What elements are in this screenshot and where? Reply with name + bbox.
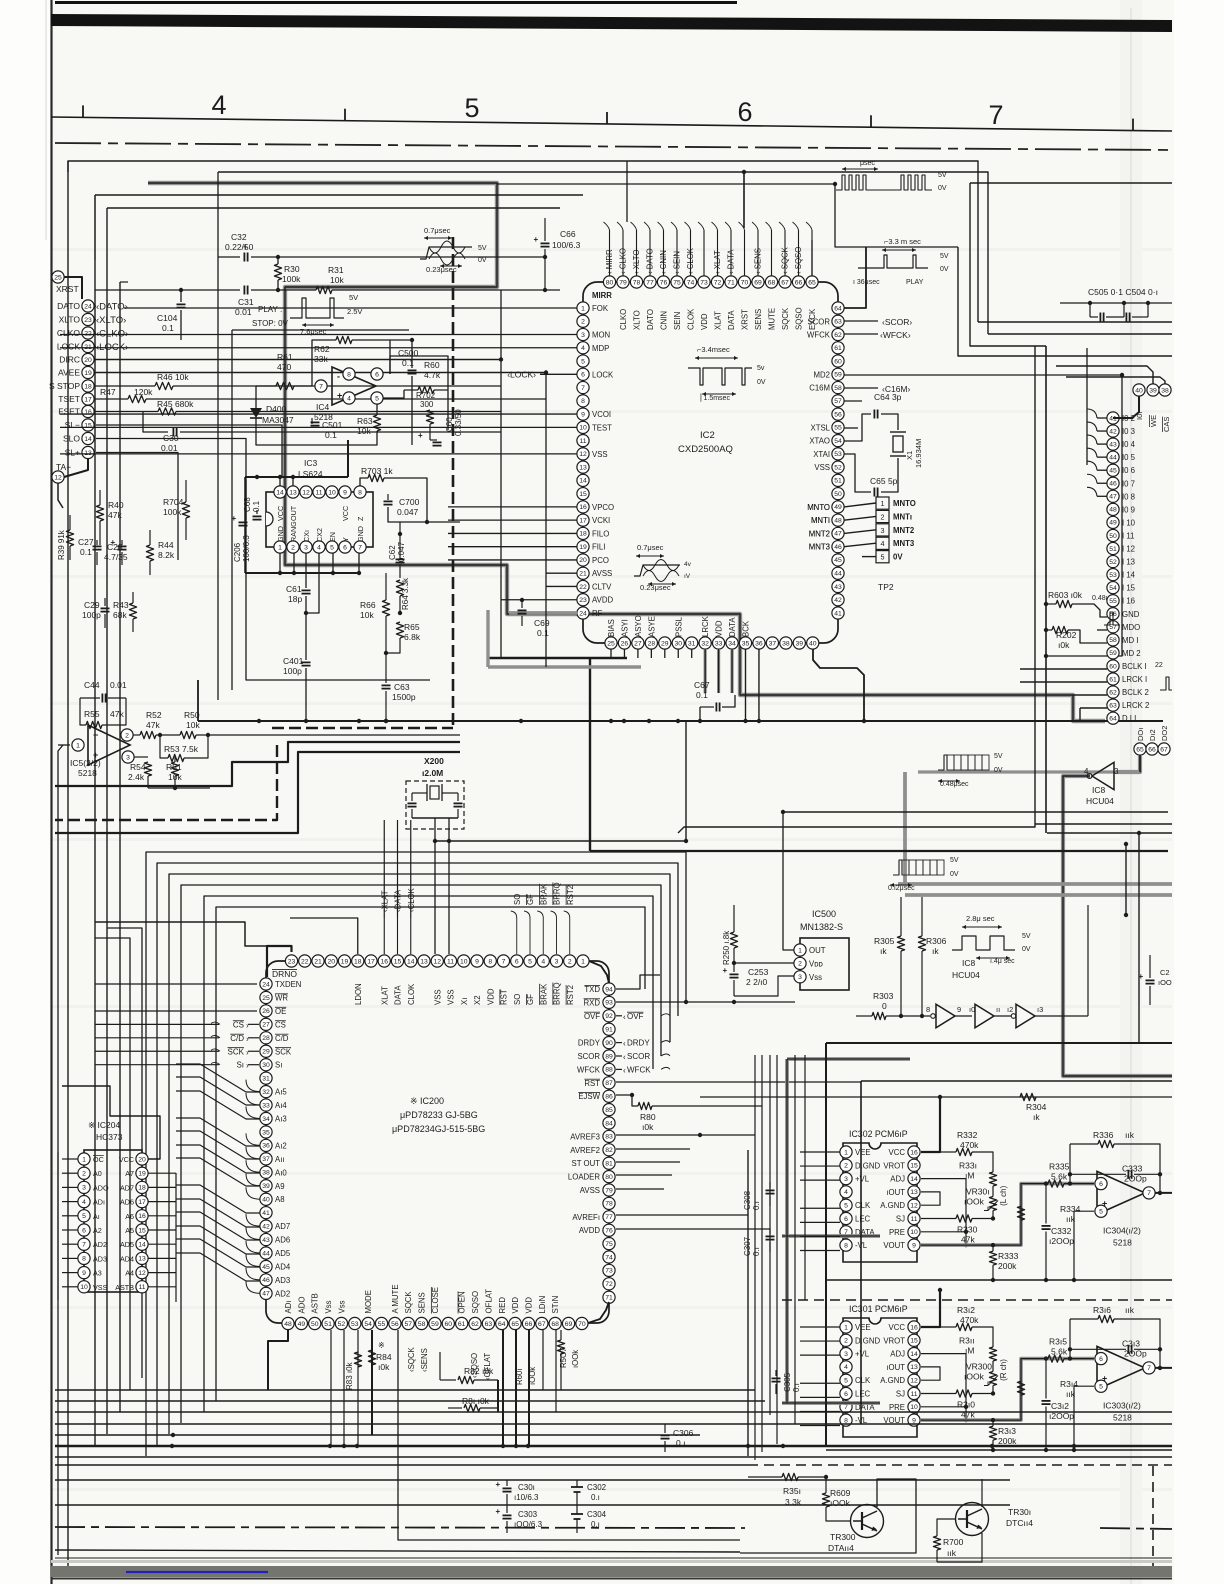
svg-text:SENS: SENS [754, 309, 763, 330]
TP2 pin 4 [876, 537, 889, 549]
IC200 pin 44 [260, 1247, 272, 1259]
svg-text:49: 49 [1109, 520, 1117, 527]
RAM pin 64 [1107, 712, 1119, 724]
svg-text:Aı0: Aı0 [275, 1168, 287, 1177]
IC301 pin 11 [908, 1387, 920, 1399]
svg-text:23: 23 [84, 317, 92, 324]
wire BCLK LRCK runs [1020, 668, 1107, 670]
svg-text:15: 15 [910, 1338, 918, 1345]
svg-text:47k: 47k [961, 1235, 975, 1245]
svg-text:TSET: TSET [58, 394, 80, 404]
IC302 pin 1 [840, 1146, 852, 1158]
IC2 pin 67 [779, 276, 791, 288]
bottom scan band [51, 1566, 1172, 1577]
svg-text:63: 63 [485, 1321, 493, 1328]
svg-text:MDO: MDO [1122, 623, 1140, 632]
RAM pin 62 [1107, 686, 1119, 698]
svg-text:37: 37 [769, 640, 777, 647]
svg-text:C305: C305 [783, 1372, 792, 1392]
svg-text:MN1382-S: MN1382-S [800, 922, 843, 932]
svg-text:R66: R66 [360, 600, 376, 610]
svg-text:5218: 5218 [1113, 1413, 1132, 1423]
IC204 pin 4 [78, 1196, 90, 1208]
svg-text:16: 16 [380, 958, 388, 965]
svg-text:71: 71 [727, 279, 735, 286]
svg-text:MA3047: MA3047 [262, 415, 294, 425]
svg-text:40: 40 [262, 1197, 270, 1204]
IC2 pin 41 [832, 607, 844, 619]
IC200 pin 24 [260, 978, 272, 990]
svg-text:46: 46 [834, 544, 842, 551]
svg-text:13: 13 [289, 489, 297, 496]
IC2 pin 37 [766, 637, 778, 649]
svg-text:CLTV: CLTV [592, 582, 612, 591]
svg-text:15: 15 [579, 491, 587, 498]
IC200 pin 70 [576, 1317, 588, 1329]
svg-text:41: 41 [834, 610, 842, 617]
svg-text:C401: C401 [283, 656, 304, 666]
IC302 pin 11 [908, 1212, 920, 1224]
IC2 pin 64 [832, 302, 844, 314]
svg-text:68: 68 [768, 279, 776, 286]
RAM pin 63 [1107, 699, 1119, 711]
svg-text:※ IC204: ※ IC204 [88, 1120, 120, 1130]
svg-text:27: 27 [262, 1022, 270, 1029]
IC2 pin 36 [753, 637, 765, 649]
svg-text:60: 60 [445, 1321, 453, 1328]
capacitor C30 [143, 412, 168, 433]
svg-text:36: 36 [262, 1143, 270, 1150]
svg-text:AD7: AD7 [120, 1183, 134, 1192]
svg-text:ADJ: ADJ [890, 1175, 905, 1184]
svg-text:+: + [534, 235, 539, 244]
svg-text:C44: C44 [84, 680, 100, 690]
svg-text:OE: OE [275, 1007, 286, 1016]
svg-text:0.1: 0.1 [162, 323, 174, 333]
svg-text:R3ı3: R3ı3 [998, 1426, 1016, 1436]
svg-text:4: 4 [317, 544, 321, 551]
svg-text:9: 9 [475, 958, 479, 965]
svg-text:XRST: XRST [741, 309, 750, 330]
svg-text:94: 94 [605, 986, 613, 993]
svg-text:C304: C304 [587, 1510, 607, 1519]
svg-text:CNIN: CNIN [660, 311, 669, 330]
dash-dot divider line top [55, 143, 1172, 150]
svg-text:58: 58 [1109, 637, 1117, 644]
IC2 pin 54 [832, 435, 844, 447]
grey highlight loop top [148, 183, 1105, 721]
svg-text:55: 55 [1109, 598, 1117, 605]
IC200 pin 10 [458, 955, 470, 967]
wire ADJ-PRE vertical [921, 1179, 966, 1246]
ruler tick [606, 112, 608, 124]
svg-text:39: 39 [1149, 387, 1157, 394]
IC2 pin 51 [832, 474, 844, 486]
svg-text:47k: 47k [108, 510, 122, 520]
svg-text:R47: R47 [100, 387, 116, 397]
svg-text:R65: R65 [404, 622, 420, 632]
wire AVREF stubs [616, 1134, 755, 1136]
svg-text:Vss: Vss [809, 973, 822, 982]
svg-text:66: 66 [525, 1321, 533, 1328]
svg-text:5: 5 [844, 1378, 848, 1385]
svg-text:82: 82 [605, 1147, 613, 1154]
wire main bus y721 [198, 720, 1163, 722]
svg-text:76: 76 [605, 1228, 613, 1235]
IC2 pin 18 [577, 527, 589, 539]
svg-text:ı0k: ı0k [642, 1122, 654, 1132]
IC200 pin 48 [282, 1317, 294, 1329]
svg-text:25: 25 [607, 640, 615, 647]
wire IC3 vcc bus [245, 476, 348, 478]
svg-text:LRCK 2: LRCK 2 [1122, 701, 1149, 710]
svg-text:66: 66 [1148, 746, 1156, 753]
svg-text:29: 29 [262, 1049, 270, 1056]
svg-text:R3ı6: R3ı6 [1093, 1305, 1111, 1315]
svg-text:SCOR: SCOR [577, 1052, 600, 1061]
svg-text:VEE: VEE [855, 1148, 871, 1157]
svg-text:0.7μsec: 0.7μsec [424, 226, 451, 235]
svg-text:CXD2500AQ: CXD2500AQ [678, 444, 733, 455]
IC2 pin 17 [577, 514, 589, 526]
svg-text:MON: MON [592, 331, 610, 340]
wire long horizontal y160 [68, 161, 978, 322]
op-amp IC303(ı/2) [1097, 1346, 1145, 1389]
svg-text:DTCıı4: DTCıı4 [1006, 1518, 1033, 1528]
svg-text:50: 50 [1109, 533, 1117, 540]
svg-text:MNTı: MNTı [893, 512, 912, 521]
svg-text:16.934M: 16.934M [914, 439, 923, 468]
svg-text:47: 47 [834, 531, 842, 538]
svg-text:SCOR: SCOR [627, 1052, 650, 1061]
TP2 pin 5 [876, 551, 889, 563]
IC301 pin 2 [840, 1334, 852, 1346]
svg-text:44: 44 [1109, 454, 1117, 461]
IC200 pin 60 [442, 1317, 454, 1329]
svg-text:54: 54 [1109, 585, 1117, 592]
svg-text:65: 65 [808, 279, 816, 286]
svg-text:C63: C63 [394, 682, 410, 692]
svg-text:0.01: 0.01 [161, 443, 178, 453]
svg-text:IC3: IC3 [304, 458, 318, 468]
svg-text:AD3: AD3 [93, 1254, 107, 1263]
IC500 pin 1 [794, 944, 806, 956]
svg-text:23: 23 [579, 597, 587, 604]
svg-text:0.1: 0.1 [537, 628, 549, 638]
svg-text:0V: 0V [938, 185, 947, 192]
wire bundle around IC200 [146, 852, 686, 1456]
svg-text:SJ: SJ [896, 1390, 905, 1399]
wire black under DAC greys [787, 1058, 910, 1060]
svg-text:0V: 0V [757, 379, 766, 386]
svg-text:38: 38 [262, 1170, 270, 1177]
svg-text:5V: 5V [940, 253, 949, 260]
IC3 pin 12 [300, 486, 312, 498]
svg-text:›: › [246, 1021, 249, 1030]
svg-text:AD3: AD3 [275, 1276, 290, 1285]
svg-text:8: 8 [82, 1256, 86, 1263]
wire long horizontal y171 [218, 172, 988, 334]
IC3 pin 3 [300, 541, 312, 553]
svg-text:2: 2 [125, 732, 129, 739]
svg-text:SQCK: SQCK [781, 307, 790, 330]
svg-text:24: 24 [579, 610, 587, 617]
wire bottom bus junction dots [170, 1444, 174, 1448]
svg-text:1: 1 [844, 1324, 848, 1331]
svg-text:R609: R609 [830, 1488, 851, 1498]
wire SL- run [96, 425, 282, 478]
wire right pair into edge [1035, 823, 1172, 825]
svg-text:ı0k: ı0k [1058, 640, 1070, 650]
svg-text:15: 15 [84, 422, 92, 429]
svg-text:7: 7 [502, 958, 506, 965]
svg-text:38: 38 [1161, 387, 1169, 394]
svg-text:D I I: D I I [1122, 714, 1136, 723]
svg-text:4.7k: 4.7k [424, 370, 441, 380]
svg-text:DRDY: DRDY [578, 1039, 601, 1048]
svg-text:1: 1 [844, 1149, 848, 1156]
svg-text:93: 93 [605, 1000, 613, 1007]
svg-text:IC8: IC8 [962, 958, 976, 968]
svg-text:11: 11 [138, 1284, 145, 1291]
svg-text:C69: C69 [534, 618, 550, 628]
wire D11 pin64 [1073, 720, 1107, 722]
svg-text:2.8μ sec: 2.8μ sec [966, 914, 995, 923]
svg-text:R305: R305 [874, 936, 895, 946]
svg-text:I 15: I 15 [1122, 584, 1136, 593]
svg-text:A8: A8 [275, 1195, 285, 1204]
svg-text:51: 51 [1109, 546, 1117, 553]
IC302 pin 6 [840, 1212, 852, 1224]
svg-text:17: 17 [579, 517, 587, 524]
IC200 pin 76 [603, 1224, 615, 1236]
wire left pins 31-47 curves [246, 1080, 260, 1092]
IC3 pin 13 [287, 486, 299, 498]
svg-text:MDP: MDP [592, 344, 609, 353]
IC2 pin 53 [832, 448, 844, 460]
svg-text:I 10: I 10 [1122, 518, 1136, 527]
svg-text:40: 40 [1135, 387, 1143, 394]
IC200 pin 8 [484, 955, 496, 967]
svg-text:AD5: AD5 [275, 1249, 291, 1258]
svg-text:61: 61 [834, 345, 842, 352]
svg-text:I0 4: I0 4 [1122, 440, 1136, 449]
svg-text:MD2: MD2 [814, 370, 830, 379]
IC200 pin 3 [550, 955, 562, 967]
IC302 pin 12 [908, 1199, 920, 1211]
svg-text:R60ı: R60ı [515, 1369, 524, 1385]
svg-text:X200: X200 [424, 756, 444, 766]
IC200 pin 72 [603, 1278, 615, 1290]
svg-text:R35ı: R35ı [783, 1486, 801, 1496]
svg-text:90: 90 [605, 1040, 613, 1047]
svg-text:RED: RED [498, 1297, 507, 1314]
svg-text:VDD: VDD [524, 1297, 533, 1314]
svg-text:28: 28 [648, 640, 656, 647]
svg-text:IC304(ı/2): IC304(ı/2) [1103, 1226, 1141, 1236]
ruler tick [1132, 119, 1134, 131]
svg-text:WFCK: WFCK [627, 1065, 651, 1074]
RAM pin 43 [1107, 438, 1119, 450]
svg-text:OVF: OVF [584, 1012, 600, 1021]
svg-text:33: 33 [715, 640, 723, 647]
svg-text:1: 1 [82, 1156, 86, 1163]
IC2 pin 13 [577, 461, 589, 473]
svg-text:IC8: IC8 [1092, 785, 1106, 795]
IC200 pin 66 [522, 1317, 534, 1329]
svg-text:ıOUT: ıOUT [886, 1188, 905, 1197]
IC2 pin 12 [577, 448, 589, 460]
svg-text:11: 11 [579, 438, 586, 445]
svg-text:R44: R44 [158, 540, 174, 550]
svg-text:ı 36μsec: ı 36μsec [853, 279, 880, 286]
IC204 pin 5 [78, 1210, 90, 1222]
svg-text:SJ: SJ [896, 1215, 905, 1224]
svg-text:37: 37 [262, 1156, 270, 1163]
IC200 pin 82 [603, 1144, 615, 1156]
svg-text:D.GND: D.GND [855, 1161, 880, 1170]
svg-text:39: 39 [262, 1183, 270, 1190]
svg-text:ı3: ı3 [1037, 1005, 1043, 1014]
svg-text:8: 8 [347, 371, 351, 378]
IC200 pin 91 [603, 1023, 615, 1035]
wire TXDEN run [95, 983, 257, 985]
svg-text:100p: 100p [283, 666, 302, 676]
svg-text:43: 43 [262, 1237, 270, 1244]
wire loop into RAM curves right [1056, 366, 1153, 384]
svg-text:AD2: AD2 [275, 1289, 290, 1298]
svg-text:R33ı: R33ı [959, 1160, 977, 1170]
svg-text:16: 16 [910, 1324, 918, 1331]
svg-text:C501: C501 [322, 420, 343, 430]
svg-text:OUT: OUT [809, 946, 826, 955]
svg-text:DATA: DATA [727, 310, 736, 330]
svg-text:AD2: AD2 [93, 1240, 107, 1249]
svg-text:5: 5 [1099, 1209, 1103, 1216]
svg-text:R64 3.3k: R64 3.3k [401, 577, 410, 610]
svg-text:45: 45 [1109, 468, 1117, 475]
svg-text:Aı2: Aı2 [275, 1141, 287, 1150]
svg-text:‹: ‹ [623, 1039, 626, 1048]
svg-text:A.GND: A.GND [880, 1201, 905, 1210]
svg-text:(R ch): (R ch) [999, 1359, 1008, 1381]
svg-text:IC301 PCM6ıP: IC301 PCM6ıP [849, 1304, 908, 1314]
svg-text:C253: C253 [748, 967, 769, 977]
wire left edge bottom verticals [58, 745, 63, 1555]
IC200 pin 5 [524, 955, 536, 967]
svg-text:OC: OC [93, 1155, 104, 1164]
IC204 pin 3 [78, 1181, 90, 1193]
IC2 pin 1 [577, 302, 589, 314]
IC301 pin 7 [840, 1401, 852, 1413]
svg-text:R332: R332 [957, 1130, 978, 1140]
RAM bottom pins 65 66 67 [1134, 743, 1146, 755]
svg-text:92: 92 [605, 1013, 613, 1020]
svg-text:BCLK I: BCLK I [1122, 662, 1147, 671]
IC2 right pin64 wire [844, 247, 866, 308]
svg-text:‹CLOK: ‹CLOK [407, 887, 416, 912]
svg-text:34: 34 [262, 1116, 270, 1123]
svg-text:ıOOk: ıOOk [964, 1372, 985, 1382]
svg-text:72: 72 [714, 279, 722, 286]
svg-text:5218: 5218 [1113, 1238, 1132, 1248]
svg-text:15: 15 [138, 1227, 146, 1234]
svg-text:VR300: VR300 [966, 1362, 992, 1372]
svg-text:GND: GND [1122, 610, 1140, 619]
svg-text:CLK: CLK [855, 1376, 871, 1385]
wire bracket risers XLAT DATA CLOK [383, 820, 385, 918]
wire long horizontal y182 right part [970, 182, 1172, 184]
svg-text:20: 20 [138, 1156, 146, 1163]
svg-text:※ IC200: ※ IC200 [410, 1096, 444, 1106]
wire y1550 [55, 1550, 740, 1552]
svg-text:I 13: I 13 [1122, 558, 1135, 567]
svg-text:BRRQ: BRRQ [553, 982, 562, 1005]
svg-text:I0 5: I0 5 [1122, 453, 1136, 462]
IC2 pin 33 [713, 637, 725, 649]
IC2 pin 34 [726, 637, 738, 649]
svg-text:ıOO/6.3: ıOO/6.3 [514, 1520, 543, 1529]
capacitor C307 symbol [766, 1235, 775, 1237]
IC200 pin 22 [299, 955, 311, 967]
svg-text:6: 6 [1099, 1181, 1103, 1188]
svg-text:8: 8 [488, 958, 492, 965]
wire IC2 bottom pin stubs [610, 649, 612, 658]
svg-text:ADO: ADO [93, 1183, 109, 1192]
svg-text:74: 74 [687, 279, 695, 286]
op-amp IC4 5218 [332, 367, 376, 405]
svg-text:MNTı: MNTı [811, 516, 830, 525]
IC2 pin 19 [577, 541, 589, 553]
svg-text:‹: ‹ [623, 1053, 626, 1062]
svg-text:26: 26 [621, 640, 629, 647]
svg-text:C306: C306 [673, 1428, 694, 1438]
svg-text:GND: GND [356, 526, 365, 542]
svg-text:49: 49 [834, 504, 842, 511]
IC3 pin 4 [313, 541, 325, 553]
svg-text:14: 14 [910, 1176, 918, 1183]
wire thick vertical x590 [589, 658, 591, 851]
wire VCC thick elbow [921, 1097, 940, 1152]
svg-text:ık: ık [880, 946, 887, 956]
svg-text:LDıN: LDıN [538, 1296, 547, 1314]
svg-text:22: 22 [579, 584, 587, 591]
svg-text:BRAK: BRAK [539, 983, 548, 1005]
IC2 pin 77 [644, 276, 656, 288]
IC IC204 body [84, 1150, 142, 1292]
svg-text:MIRR: MIRR [592, 291, 612, 300]
svg-text:+: + [243, 243, 248, 252]
svg-text:6: 6 [844, 1216, 848, 1223]
svg-text:R700: R700 [943, 1537, 964, 1547]
wire stub pin12 down [58, 483, 63, 508]
svg-text:77: 77 [605, 1214, 613, 1221]
IC3 pin 7 [354, 541, 366, 553]
svg-text:2: 2 [844, 1163, 848, 1170]
svg-text:I0ı: I0ı [1135, 412, 1144, 420]
IC2 pin 23 [577, 594, 589, 606]
svg-text:12: 12 [910, 1203, 918, 1210]
RAM pin 57 [1107, 621, 1119, 633]
capacitor C308 symbol [766, 1189, 775, 1191]
IC200 pin 80 [603, 1171, 615, 1183]
svg-text:C303: C303 [518, 1510, 538, 1519]
wire TXD RXD elbows [616, 975, 660, 989]
svg-text:I 16: I 16 [1122, 597, 1135, 606]
svg-text:67: 67 [781, 279, 789, 286]
svg-text:SCK: SCK [275, 1047, 292, 1056]
wire IOUT AGND loop [921, 1192, 940, 1205]
